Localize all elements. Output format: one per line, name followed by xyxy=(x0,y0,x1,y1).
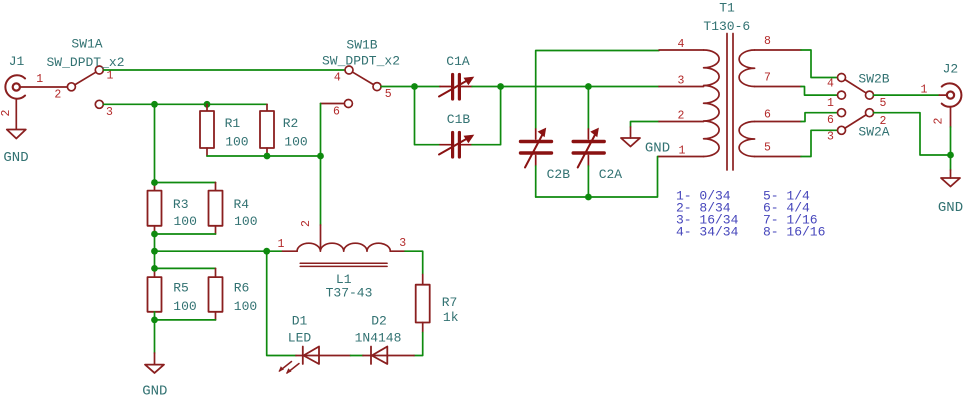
svg-text:3: 3 xyxy=(106,106,113,119)
wire R5 bottom to ground xyxy=(154,312,156,353)
svg-text:SW1A: SW1A xyxy=(71,37,102,52)
svg-text:4: 4 xyxy=(678,38,685,51)
svg-text:5: 5 xyxy=(880,97,887,110)
svg-text:R7: R7 xyxy=(442,295,458,310)
wire C2B bottom xyxy=(535,166,537,197)
switch SW1B xyxy=(321,66,382,108)
resistor R6 xyxy=(209,277,223,312)
node R1 top xyxy=(204,101,211,108)
svg-text:4- 34/34: 4- 34/34 xyxy=(676,225,739,240)
wire R1 top lead xyxy=(206,104,208,111)
wire SW1A pin1 to SW1B pin4 xyxy=(104,69,345,71)
svg-text:100: 100 xyxy=(173,214,196,229)
transformer T1 xyxy=(659,34,801,171)
svg-text:1: 1 xyxy=(278,238,285,251)
svg-text:D2: D2 xyxy=(371,313,387,328)
svg-text:R6: R6 xyxy=(234,281,250,296)
svg-text:3: 3 xyxy=(678,75,685,88)
svg-text:7: 7 xyxy=(764,72,771,85)
svg-text:6: 6 xyxy=(333,106,340,119)
wire C1B loop left vertical xyxy=(415,87,441,145)
switch SW1A xyxy=(67,66,103,108)
svg-text:2: 2 xyxy=(880,115,887,128)
svg-text:6: 6 xyxy=(764,109,771,122)
ground at J1 xyxy=(7,130,26,139)
node R3 bottom xyxy=(151,231,158,238)
svg-text:R5: R5 xyxy=(173,281,189,296)
svg-text:100: 100 xyxy=(173,299,196,314)
node rail to SW1B-6 vertical xyxy=(317,153,324,160)
wire bottom rail to T1 pin1 xyxy=(536,157,659,198)
svg-text:2: 2 xyxy=(54,89,61,102)
svg-text:1: 1 xyxy=(679,145,686,158)
svg-text:SW2B: SW2B xyxy=(858,72,889,87)
svg-text:LED: LED xyxy=(288,331,312,346)
node R2 bottom xyxy=(264,153,271,160)
svg-text:R4: R4 xyxy=(233,197,249,212)
resistor R3 xyxy=(148,191,162,226)
svg-text:R1: R1 xyxy=(225,116,241,131)
diode D2 xyxy=(363,347,414,365)
svg-text:100: 100 xyxy=(284,134,307,149)
switch SW2B xyxy=(838,74,874,117)
svg-text:8: 8 xyxy=(764,35,771,48)
svg-text:2: 2 xyxy=(678,110,685,123)
wire branch to L1 pin1 xyxy=(155,250,283,252)
svg-text:T1: T1 xyxy=(719,1,735,16)
svg-text:8- 16/16: 8- 16/16 xyxy=(763,225,825,240)
svg-text:3: 3 xyxy=(827,131,834,144)
resistor R1 xyxy=(200,111,214,148)
wire SW1B pin5 to C1 node xyxy=(381,86,414,88)
svg-text:GND: GND xyxy=(645,141,670,157)
node J2 ground xyxy=(947,152,954,159)
svg-text:C1A: C1A xyxy=(446,54,470,69)
ground at T1 pin2 xyxy=(630,127,632,138)
svg-text:T37-43: T37-43 xyxy=(326,285,373,300)
ground at J2 xyxy=(941,178,960,187)
wire T1 pin8 to SW2B pin4 xyxy=(801,50,837,78)
svg-text:1k: 1k xyxy=(443,310,459,325)
wire R3/R4 bottom rail xyxy=(215,226,217,234)
svg-text:D1: D1 xyxy=(292,313,308,328)
svg-text:R2: R2 xyxy=(283,116,299,131)
svg-text:2: 2 xyxy=(0,109,13,116)
wire R5/R6 top rail xyxy=(155,267,216,269)
svg-text:100: 100 xyxy=(225,134,248,149)
svg-text:GND: GND xyxy=(3,150,28,166)
resistor R5 xyxy=(148,277,162,312)
diode D1 LED xyxy=(279,347,351,374)
wire top rail C2B to T1 pin4 xyxy=(536,51,659,130)
svg-text:SW_DPDT_x2: SW_DPDT_x2 xyxy=(46,55,124,70)
svg-text:SW1B: SW1B xyxy=(346,38,377,53)
ground left chain xyxy=(145,365,164,373)
wire SW1A pin3 to R1/R2 top row xyxy=(104,103,268,105)
node C1 right xyxy=(497,83,504,90)
svg-text:2: 2 xyxy=(300,220,313,227)
wire R1/R2 bottom rail xyxy=(207,155,321,157)
wire C2A bottom xyxy=(587,166,589,197)
node D branch xyxy=(263,248,270,255)
svg-text:4: 4 xyxy=(334,72,341,85)
svg-text:5: 5 xyxy=(385,88,392,101)
capacitor C1B xyxy=(439,133,474,158)
node R5 bottom xyxy=(151,317,158,324)
wire C1 left lead row xyxy=(415,86,441,88)
svg-text:100: 100 xyxy=(234,299,257,314)
wire R1 bottom lead xyxy=(206,148,208,156)
svg-text:4: 4 xyxy=(827,78,834,91)
svg-text:5: 5 xyxy=(764,142,771,155)
wire C1 node to T1 pin3 xyxy=(501,86,659,88)
wire C1A right to node xyxy=(472,86,501,88)
capacitor C2B xyxy=(521,128,552,168)
svg-text:R3: R3 xyxy=(173,197,189,212)
svg-text:3: 3 xyxy=(399,237,406,250)
connector J1 xyxy=(5,75,67,128)
wire R3 bottom to rail xyxy=(154,226,156,234)
wire C1B loop right vertical xyxy=(472,87,501,145)
wire L1 pin3 to R7 xyxy=(405,251,423,274)
switch SW2A xyxy=(838,91,874,134)
node row A left xyxy=(151,101,158,108)
wire SW2B pin5 to J2 xyxy=(874,94,940,96)
svg-text:C2B: C2B xyxy=(547,167,571,182)
svg-text:1N4148: 1N4148 xyxy=(355,331,402,346)
node R5 top xyxy=(151,265,158,272)
wire D branch vertical xyxy=(267,251,296,355)
svg-text:SW_DPDT_x2: SW_DPDT_x2 xyxy=(322,54,400,69)
svg-text:C1B: C1B xyxy=(447,112,471,127)
svg-text:1: 1 xyxy=(921,84,928,97)
svg-text:C2A: C2A xyxy=(599,167,623,182)
svg-text:1: 1 xyxy=(36,73,43,86)
wire left vertical chain xyxy=(154,104,156,182)
node C2A bottom xyxy=(585,194,592,201)
wire SW2A pin2 to J2 ground net xyxy=(874,113,951,155)
wire R2 top lead xyxy=(266,104,268,111)
wire R3/R4 top rail xyxy=(155,182,216,184)
inductor L1 xyxy=(283,225,406,266)
wire T1 pin6 to SW2B pin6 xyxy=(801,113,837,122)
resistor R2 xyxy=(260,111,274,148)
node C1 left xyxy=(411,83,418,90)
node R3 top xyxy=(151,179,158,186)
svg-text:T130-6: T130-6 xyxy=(703,19,750,34)
node branch to L1 xyxy=(151,248,158,255)
svg-text:6: 6 xyxy=(827,114,834,127)
capacitor C1A xyxy=(439,75,474,100)
wire J2 pin2 down xyxy=(950,127,952,170)
wire R7 bottom xyxy=(422,323,424,333)
wire C2A top vertical xyxy=(587,87,589,130)
svg-text:GND: GND xyxy=(938,200,963,216)
node C2A top xyxy=(585,83,592,90)
resistor R4 xyxy=(209,191,223,226)
svg-text:J2: J2 xyxy=(943,62,959,77)
svg-text:2: 2 xyxy=(933,117,946,124)
capacitor C2A xyxy=(573,128,604,168)
wire between D1 and D2 xyxy=(351,355,364,357)
wire T1 pin5 to SW2A pin3 xyxy=(801,130,837,156)
svg-text:J1: J1 xyxy=(9,54,25,69)
svg-text:1: 1 xyxy=(827,97,834,110)
svg-text:GND: GND xyxy=(142,384,167,397)
connector J2 xyxy=(939,83,961,127)
wire R2 bottom lead xyxy=(266,148,268,156)
resistor R7 xyxy=(416,285,430,323)
wire T1 pin7 to SW2A pin1 xyxy=(801,87,837,96)
wire T1 pin2 to ground xyxy=(631,122,660,128)
wire R5/R6 bottom rail xyxy=(215,312,217,320)
wire SW1B pin6 down to L1 pin2 xyxy=(320,104,322,226)
svg-text:1: 1 xyxy=(107,70,114,83)
svg-text:100: 100 xyxy=(234,214,257,229)
